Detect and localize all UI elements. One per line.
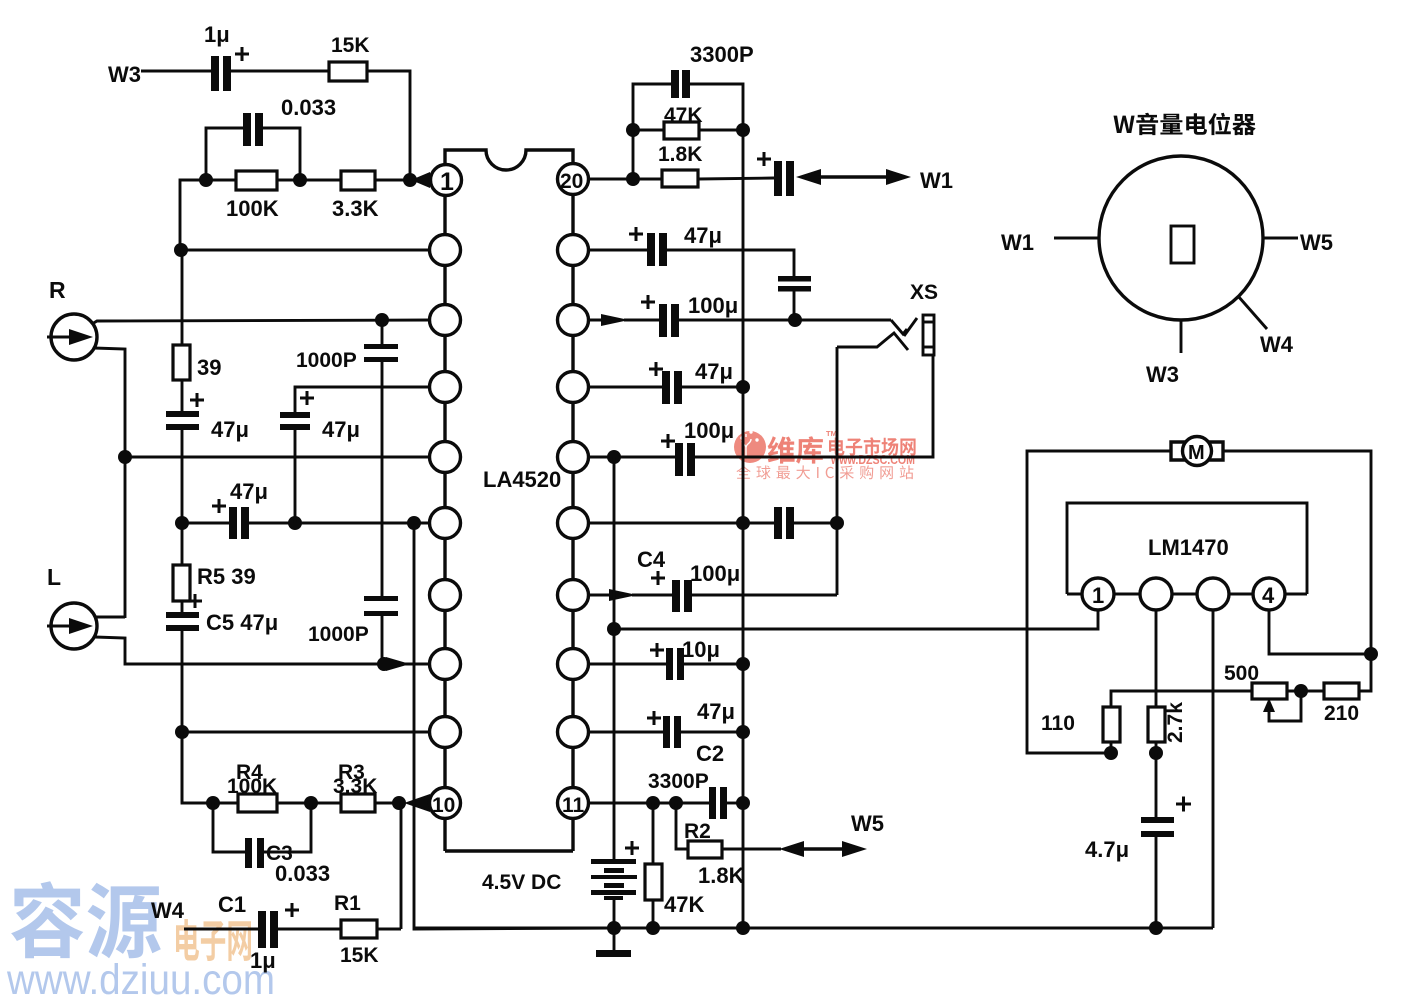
pin 4 LM1470 [1253,578,1285,610]
svg-text:C2: C2 [696,741,724,766]
node junction x743 y928 [736,921,750,935]
node junction x614 y629 [607,622,621,636]
wire W1 double arrow [796,169,911,185]
svg-text:15K: 15K [331,34,370,57]
capacitor 4.7u [1085,753,1191,928]
node junction x1301 y691 [1294,684,1308,698]
svg-text:10μ: 10μ [682,637,720,662]
svg-text:100K: 100K [227,775,277,798]
wire 39 to cap [181,380,184,411]
svg-text:R: R [49,277,66,303]
pin 3 [430,305,461,336]
wire pin10 to R1 [400,803,403,929]
svg-text:20: 20 [560,170,583,193]
wire R1 to pin10 rail [377,928,401,931]
node junction pin1 [403,173,417,187]
wire jack contact down x837 [836,347,839,595]
resistor R1 15K [334,892,379,967]
node junction x743 y387 [736,380,750,394]
wire x295 to pin6 [295,522,432,525]
capacitor 1u input top [204,22,249,91]
wire pin3 LM1470 down [1212,610,1215,928]
capacitor 1000P lower [308,596,398,664]
node junction C3 right [304,796,318,810]
node W3 [108,62,141,87]
pin 2 LM1470 [1140,578,1172,610]
wire ground rail drop [414,523,613,929]
wire C1 to R1 [278,928,341,931]
wire R4 to R3 [277,802,341,805]
svg-text:1.8K: 1.8K [698,863,745,888]
pin 17 [558,372,589,403]
connector R input [47,314,97,360]
svg-text:R1: R1 [334,892,361,915]
node junction x653 y803 [646,796,660,810]
wire L bottom lead [95,637,384,664]
capacitor 47u pin17 [588,359,743,404]
capacitor 3300P bottom [648,770,743,819]
pin 15 [558,508,589,539]
node junction x743 y523 [736,516,750,530]
pin 7 [430,580,461,611]
svg-text:11: 11 [562,794,585,817]
capacitor 47u horizontal pin6 [182,479,295,539]
capacitor drop x794 [778,276,811,320]
wire pin11 row [588,802,709,805]
node junction 0.033 right [293,173,307,187]
potentiometer W title [1114,113,1256,135]
pin 9 [430,717,461,748]
watermark red logo [734,430,766,463]
resistor 15K top [329,34,370,81]
svg-text:47μ: 47μ [230,479,268,504]
wire L top lead [95,616,125,619]
svg-text:1: 1 [440,168,454,196]
node junction 1000P bottom [377,657,391,671]
motor M [1171,437,1223,466]
wire pin15 row [588,522,774,525]
node R [49,277,66,303]
svg-text:3300P: 3300P [690,42,754,67]
wire pin5 row [125,456,432,459]
svg-text:www.dziuu.com: www.dziuu.com [6,956,275,999]
svg-text:3.3K: 3.3K [332,196,379,221]
pin 18 [558,305,589,336]
arrow into pin 10 [404,794,430,812]
resistor 100K top [226,171,279,221]
svg-text:M: M [1188,442,1205,464]
capacitor C2 47u pin12 [588,699,743,766]
node junction 47K left [626,123,640,137]
pin 10 [430,788,461,819]
wire C to 15K [231,70,329,73]
arrow into pin 1 [411,172,430,188]
capacitor 47u pin19 [588,223,794,276]
node junction x182 y250 [174,243,188,257]
svg-text:W4: W4 [151,898,185,923]
svg-text:1000P: 1000P [308,623,369,646]
wire 3.3K to pin1 [375,179,412,182]
svg-text:210: 210 [1324,702,1359,725]
wire R3 to pin10 node [375,802,400,805]
wire motor loop left [1027,451,1171,753]
pin 20 [558,164,589,195]
node junction 0.033 left [199,173,213,187]
capacitor 100u pin16 [588,418,734,476]
node junction x182 y523 [175,516,189,530]
node junction x1111 y753 [1104,746,1118,760]
wire motor loop right [1223,451,1371,691]
wire rail x182 mid [181,430,184,565]
node junction 47K y928 [646,921,660,935]
svg-text:100μ: 100μ [690,561,740,586]
svg-text:C1: C1 [218,892,246,917]
node W4 [151,898,185,923]
resistor 2.7k [1148,702,1187,753]
resistor R4 100K [236,761,277,812]
node junction x743 y803 [736,796,750,810]
pin 2 [430,235,461,266]
potentiometer 500 [1224,662,1301,721]
node junction 1.8K left [626,172,640,186]
battery 4.5V DC [482,629,639,928]
resistor R2 1.8K [676,803,781,888]
pin 16 [558,442,589,473]
capacitor 47u R channel [166,393,249,442]
svg-text:LM1470: LM1470 [1148,535,1229,560]
node W1 pot lead [1001,230,1099,255]
wire pin1-feed long [614,457,1098,629]
node W3 pot lead [1146,320,1181,387]
wire pin18 with arrow [588,314,659,326]
pin 14 [558,580,589,611]
wire W4 to C1 [184,928,258,931]
resistor 3.3K top [332,171,379,221]
capacitor 100u pin18 [641,293,891,337]
potentiometer W body [1099,156,1263,320]
wire pin4 LM1470 to rail [1269,610,1371,654]
svg-text:1: 1 [1092,583,1104,608]
svg-text:W4: W4 [1260,332,1294,357]
node W4 pot lead [1238,296,1294,357]
node junction x743 y664 [736,657,750,671]
wire speed row y691 [1111,691,1252,707]
node W5 [851,811,884,836]
svg-text:1μ: 1μ [250,948,276,973]
node junction 47K right [736,123,750,137]
capacitor 1000P upper [296,320,398,596]
capacitor coupling y523 [774,507,837,539]
wire pin2 row [180,249,432,252]
pin 1 [431,165,462,197]
svg-text:W1: W1 [920,168,953,193]
svg-text:C5 47μ: C5 47μ [206,610,278,635]
pin 19 [558,235,589,266]
wire W3 to C [141,70,211,73]
jack XS [837,281,938,355]
svg-text:110: 110 [1041,712,1075,735]
pin 8 [430,649,461,680]
svg-text:100μ: 100μ [688,293,738,318]
node junction x182 y732 [175,725,189,739]
pin 4 [430,372,461,403]
resistor 210 [1324,683,1359,725]
watermark rongyuan [6,881,275,999]
resistor 47K top [633,104,743,139]
svg-text:3.3K: 3.3K [333,775,377,798]
svg-text:47μ: 47μ [211,417,249,442]
capacitor 47u second vertical [280,391,360,523]
svg-text:0.033: 0.033 [275,861,330,886]
svg-text:10: 10 [432,794,455,817]
pin 5 [430,442,461,473]
svg-text:L: L [47,564,61,590]
svg-text:47K: 47K [664,892,704,917]
ground [596,928,631,957]
svg-text:1μ: 1μ [204,22,230,47]
wire supply rail x743 [742,130,745,928]
svg-text:4: 4 [1262,583,1275,608]
node junction x837 y523 [830,516,844,530]
svg-text:15K: 15K [340,944,379,967]
svg-text:39: 39 [197,355,221,380]
arrow into pin 8 [386,657,432,671]
wire x182 to R4 [182,731,238,803]
svg-text:www.DZSC.COM: www.DZSC.COM [830,453,915,467]
capacitor C4 100u pin14 [588,547,837,612]
svg-text:W3: W3 [108,62,141,87]
node W1 [920,168,953,193]
wire 47K node down [632,130,635,179]
node L [47,564,61,590]
node junction x125 y457 [118,450,132,464]
wire W5 double arrow [779,841,867,857]
wire pin4 row [295,387,432,412]
pin 1 LM1470 [1082,578,1114,610]
wire R to pin3 [92,320,432,324]
capacitor 3300P top [633,42,754,130]
node junction x676 y803 [669,796,683,810]
node junction x795 y320 [788,313,802,327]
wire jack sleeve down [693,355,933,457]
pin 12 [558,717,589,748]
svg-text:R5 39: R5 39 [197,564,256,589]
svg-text:W3: W3 [1146,362,1179,387]
svg-text:2.7k: 2.7k [1164,702,1187,743]
svg-text:TM: TM [826,429,837,438]
resistor 47K bottom [645,803,704,928]
svg-text:47μ: 47μ [697,699,735,724]
node W5 pot lead [1263,230,1333,255]
resistor R5 39 [173,564,256,601]
capacitor C1 1u [218,892,299,973]
node junction x743 y732 [736,725,750,739]
svg-text:100μ: 100μ [684,418,734,443]
capacitor 0.033 top [206,95,336,180]
svg-text:4.7μ: 4.7μ [1085,837,1129,862]
connector L input [47,603,97,649]
svg-text:47μ: 47μ [684,223,722,248]
svg-text:W5: W5 [1300,230,1333,255]
node junction x414 y523 [407,516,421,530]
value 100K of R4 [227,775,277,798]
wire R bottom lead [94,348,125,618]
capacitor C5 47u [166,594,278,803]
wire feedback rail y180 [180,180,236,250]
node junction x614 y457 [607,450,621,464]
node junction x1156 y928 [1149,921,1163,935]
capacitor C3 0.033 [213,803,330,886]
resistor 39 [173,345,221,380]
svg-text:4.5V DC: 4.5V DC [482,871,561,894]
node junction battery y928 [607,921,621,935]
svg-text:0.033: 0.033 [281,95,336,120]
resistor R3 3.3K [333,761,377,812]
capacitor 10u pin13 [588,637,743,680]
node junction pin10 [392,796,406,810]
pin 6 [430,508,461,539]
pin 3 LM1470 [1197,578,1229,610]
pin 13 [558,649,589,680]
wire 500 to 210 [1287,690,1324,693]
op-amp U1 LA4520 body [445,150,573,851]
wire pin20 to node [588,178,662,181]
wire bottom ground rail [414,927,1213,930]
wire pin9 row [182,731,432,734]
node junction C3 left [206,796,220,810]
capacitor to W1 [757,152,794,196]
svg-text:C4: C4 [637,547,666,572]
node junction x1371 y654 [1364,647,1378,661]
op-amp U2 LM1470 box [1067,503,1307,594]
wire 100K to 3.3K [277,179,341,182]
svg-text:W1: W1 [1001,230,1034,255]
svg-text:1.8K: 1.8K [658,143,702,166]
svg-text:100K: 100K [226,196,279,221]
wire 15K to pin1 node [367,71,410,180]
svg-text:47μ: 47μ [695,359,733,384]
resistor 110 [1041,707,1120,753]
node junction 1000P top [375,313,389,327]
pin 11 [558,788,589,819]
node junction x295 y523 [288,516,302,530]
svg-text:LA4520: LA4520 [483,467,561,492]
svg-text:3300P: 3300P [648,770,709,793]
node junction x1156 y753 [1149,746,1163,760]
svg-text:XS: XS [910,281,938,304]
svg-text:1000P: 1000P [296,349,357,372]
svg-text:W5: W5 [851,811,884,836]
resistor 1.8K top [658,143,774,187]
wire pin2 LM1470 down [1155,610,1158,707]
watermark weiku text [736,429,915,479]
svg-text:47μ: 47μ [322,417,360,442]
wire rail x182 upper [181,250,184,345]
